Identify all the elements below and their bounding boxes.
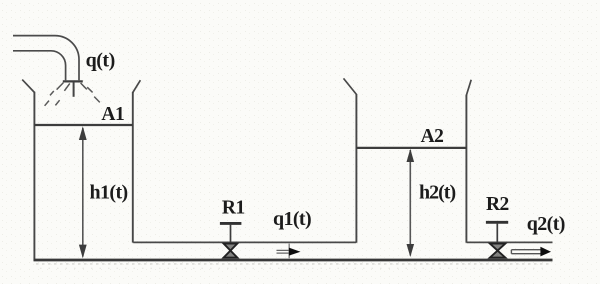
svg-text:q2(t): q2(t) xyxy=(527,213,565,235)
svg-text:h2(t): h2(t) xyxy=(419,182,455,204)
svg-text:q1(t): q1(t) xyxy=(273,208,311,230)
svg-text:A1: A1 xyxy=(101,104,124,125)
svg-text:R2: R2 xyxy=(486,194,509,215)
svg-text:R1: R1 xyxy=(222,198,245,219)
svg-text:A2: A2 xyxy=(421,126,444,147)
svg-text:h1(t): h1(t) xyxy=(90,182,128,204)
svg-text:q(t): q(t) xyxy=(86,50,115,72)
